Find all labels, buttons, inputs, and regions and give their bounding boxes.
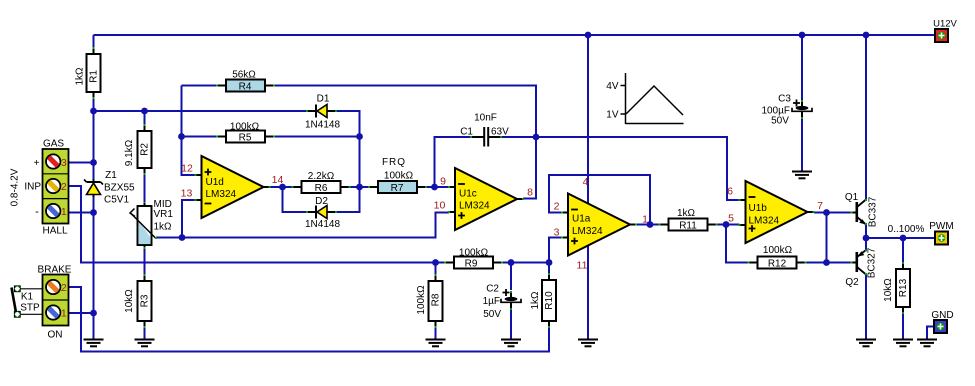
wire <box>902 307 904 340</box>
svg-text:R3: R3 <box>140 294 151 307</box>
zener diode Z1 <box>84 179 103 197</box>
svg-text:BZX55: BZX55 <box>104 183 135 194</box>
svg-text:Q2: Q2 <box>845 277 859 288</box>
svg-text:10nF: 10nF <box>474 113 497 124</box>
wire U1a pin 3 <box>549 238 562 263</box>
svg-text:100kΩ: 100kΩ <box>763 245 793 256</box>
wire D1 row <box>94 110 308 112</box>
wire R4 row <box>182 85 218 87</box>
svg-text:1N4148: 1N4148 <box>305 120 340 131</box>
svg-text:LM324: LM324 <box>206 189 237 200</box>
svg-text:1: 1 <box>61 206 67 218</box>
wire Q2 collector to ground <box>865 274 867 340</box>
wire <box>93 195 95 340</box>
svg-text:50V: 50V <box>771 116 789 127</box>
svg-text:-: - <box>35 206 39 218</box>
resistor R2 <box>138 124 152 175</box>
svg-text:1kΩ: 1kΩ <box>75 67 86 86</box>
wire U1d output <box>270 186 293 188</box>
resistor R9 <box>444 257 503 269</box>
junction <box>723 221 730 228</box>
transistor Q1 <box>851 199 868 225</box>
wire Q1 emitter / PWM node <box>865 224 867 251</box>
ground <box>856 340 876 347</box>
resistor R8 <box>429 274 443 328</box>
svg-text:8: 8 <box>527 187 533 199</box>
svg-text:4V: 4V <box>606 81 619 92</box>
svg-text:R11: R11 <box>679 221 697 232</box>
svg-text:50V: 50V <box>483 309 501 320</box>
svg-text:1V: 1V <box>606 110 619 121</box>
capacitor C3 plus mark <box>793 100 800 107</box>
svg-text:1kΩ: 1kΩ <box>154 222 173 233</box>
wire <box>435 321 437 340</box>
svg-text:1kΩ: 1kΩ <box>530 291 541 310</box>
op-amp U1a <box>561 194 637 256</box>
svg-text:C3: C3 <box>778 94 791 105</box>
wire BRAKE terminal 1 <box>69 312 94 314</box>
resistor R10 <box>542 273 556 328</box>
wire U1c output / C1 to pin 6 <box>523 137 740 200</box>
wire <box>93 92 95 179</box>
wire R13 drop <box>902 238 904 263</box>
wire R1 column to zener/ground <box>93 35 95 54</box>
connector GAS/HALL terminal block <box>43 149 69 224</box>
junction <box>533 134 540 141</box>
svg-text:R5: R5 <box>239 133 252 144</box>
wire +12V top rail <box>94 34 936 36</box>
wire <box>501 136 536 138</box>
svg-text:STP: STP <box>20 303 40 314</box>
junction <box>178 133 185 140</box>
svg-text:14: 14 <box>272 174 284 186</box>
svg-text:9: 9 <box>440 176 446 188</box>
resistor R12 <box>748 257 807 269</box>
wire <box>801 113 803 172</box>
junction <box>90 209 97 216</box>
svg-text:R9: R9 <box>465 259 478 270</box>
svg-text:FRQ: FRQ <box>382 157 406 168</box>
junction <box>90 108 97 115</box>
svg-text:9.1kΩ: 9.1kΩ <box>124 139 135 166</box>
wire C2 drop <box>510 263 512 291</box>
switch K1 <box>12 286 43 317</box>
wire <box>283 187 308 212</box>
svg-text:R10: R10 <box>544 291 555 310</box>
svg-text:BC327: BC327 <box>867 247 878 278</box>
svg-text:3: 3 <box>61 157 67 169</box>
svg-text:K1: K1 <box>21 292 34 303</box>
wire U1a pin 11 to ground <box>587 246 589 340</box>
svg-text:GAS: GAS <box>43 139 64 150</box>
svg-text:VR1: VR1 <box>154 209 174 220</box>
junction <box>823 259 830 266</box>
svg-text:63V: 63V <box>491 127 509 138</box>
svg-text:BC337: BC337 <box>868 196 879 227</box>
svg-text:U1c: U1c <box>459 189 477 200</box>
svg-text:R8: R8 <box>431 293 442 306</box>
wire GND port <box>927 327 934 340</box>
resistor R1 <box>87 47 101 99</box>
port PWM <box>935 232 948 245</box>
wire pin 7 node down to R12 node <box>826 213 828 263</box>
svg-text:GND: GND <box>931 310 953 321</box>
svg-text:13: 13 <box>181 188 193 200</box>
resistor R3 <box>138 274 152 328</box>
wire <box>144 245 146 281</box>
wire <box>144 321 146 340</box>
wire <box>336 111 360 212</box>
diode D1 <box>306 105 337 118</box>
resistor R11 <box>659 219 718 231</box>
svg-text:1N4148: 1N4148 <box>305 219 340 230</box>
svg-text:5: 5 <box>728 213 734 225</box>
svg-text:Q1: Q1 <box>845 192 859 203</box>
ground <box>135 340 155 347</box>
svg-text:R2: R2 <box>140 143 151 156</box>
svg-text:12: 12 <box>181 163 193 175</box>
wire pin 13 to VR1 wiper <box>182 200 196 238</box>
wire R5 row <box>182 136 218 138</box>
wire GAS terminal 3 <box>69 162 94 164</box>
ground <box>426 340 446 347</box>
svg-text:10kΩ: 10kΩ <box>124 289 135 313</box>
junction <box>356 184 363 191</box>
wire <box>273 136 360 138</box>
wire U1a feedback loop <box>549 175 650 225</box>
svg-text:7: 7 <box>817 200 823 212</box>
ground <box>917 340 937 347</box>
svg-text:LM324: LM324 <box>572 226 603 237</box>
junction <box>900 235 907 242</box>
op-amp U1d <box>195 156 271 218</box>
wire R12 right to Q2 base <box>806 262 852 264</box>
junction <box>431 184 438 191</box>
wire R2 column <box>144 111 146 131</box>
wire pin 5 junction to R12 <box>726 225 749 263</box>
svg-text:HALL: HALL <box>42 226 67 237</box>
transistor Q2 <box>851 250 868 276</box>
port GND <box>934 320 947 333</box>
ground <box>84 340 104 347</box>
svg-text:Z1: Z1 <box>105 170 117 181</box>
svg-text:LM324: LM324 <box>749 216 780 227</box>
svg-text:C5V1: C5V1 <box>104 195 129 206</box>
port U12V <box>935 29 948 42</box>
svg-text:R7: R7 <box>391 183 404 194</box>
wire C3 column <box>801 35 803 101</box>
junction <box>179 234 186 241</box>
svg-text:10: 10 <box>434 200 446 212</box>
wire <box>273 86 536 138</box>
wire U1b output <box>814 212 851 214</box>
junction <box>585 32 592 39</box>
waveform annotation triangle wave <box>626 86 683 115</box>
junction <box>141 108 148 115</box>
resistor R7 <box>368 181 427 193</box>
svg-text:0.8-4.2V: 0.8-4.2V <box>10 168 21 206</box>
svg-text:4: 4 <box>583 176 589 188</box>
ground <box>501 340 521 347</box>
junction <box>90 310 97 317</box>
svg-text:1: 1 <box>642 214 648 226</box>
op-amp U1b +/- marks <box>749 197 756 232</box>
svg-text:R12: R12 <box>768 259 787 270</box>
wire R8 drop <box>435 263 437 276</box>
svg-text:C2: C2 <box>486 284 499 295</box>
op-amp U1b <box>739 181 815 243</box>
op-amp U1c <box>448 168 524 230</box>
wire PWM row <box>866 237 935 239</box>
svg-text:U1b: U1b <box>749 203 768 214</box>
svg-text:100kΩ: 100kΩ <box>416 285 427 315</box>
svg-text:ON: ON <box>48 330 63 341</box>
waveform annotation axes <box>621 73 684 124</box>
svg-text:2: 2 <box>61 282 67 294</box>
svg-text:10kΩ: 10kΩ <box>883 278 894 302</box>
wire INP to R9 row <box>69 186 446 263</box>
svg-text:R6: R6 <box>315 183 328 194</box>
wire R7 to pin 9 <box>426 186 450 188</box>
svg-text:C1: C1 <box>460 127 473 138</box>
junction <box>508 259 515 266</box>
svg-text:11: 11 <box>577 260 588 272</box>
junction <box>799 32 806 39</box>
wire U1a pin 4 power <box>587 35 589 204</box>
op-amp U1a +/- marks <box>571 210 578 245</box>
svg-text:BRAKE: BRAKE <box>38 265 72 276</box>
capacitor C1 <box>470 127 502 147</box>
wire Q1 collector to rail <box>865 35 867 200</box>
resistor R13 <box>896 262 910 314</box>
potentiometer VR1 <box>130 202 157 249</box>
wire C1 branch <box>435 137 472 187</box>
svg-text:R4: R4 <box>239 82 252 93</box>
junction <box>863 235 870 242</box>
capacitor C3 <box>792 100 812 119</box>
connector BRAKE terminal block <box>43 275 69 326</box>
svg-text:U12V: U12V <box>933 19 957 30</box>
wire R4/R5 node to pin 12 <box>182 86 196 176</box>
wire <box>510 305 512 340</box>
wire <box>717 224 740 226</box>
resistor R4 <box>216 80 275 92</box>
wire <box>144 168 146 206</box>
svg-text:6: 6 <box>727 186 733 198</box>
junction <box>279 184 286 191</box>
op-amp U1c +/- marks <box>458 184 465 219</box>
ground <box>578 340 598 347</box>
svg-text:R13: R13 <box>898 278 909 297</box>
resistor R5 <box>216 131 275 143</box>
resistor R6 <box>292 181 351 193</box>
wire <box>349 186 369 188</box>
svg-text:2: 2 <box>61 181 67 193</box>
wire R11 row <box>650 224 660 226</box>
wire GAS terminal 1 <box>69 212 94 214</box>
svg-text:U1a: U1a <box>572 214 591 225</box>
svg-text:3: 3 <box>554 227 560 239</box>
svg-text:PWM: PWM <box>929 221 953 232</box>
wire BRAKE terminal 2 to bottom rail <box>69 287 550 352</box>
svg-text:+: + <box>34 158 40 169</box>
svg-text:1: 1 <box>61 308 67 320</box>
svg-text:1µF: 1µF <box>483 296 500 307</box>
ground <box>792 172 812 179</box>
svg-text:2: 2 <box>554 201 560 213</box>
junction <box>863 32 870 39</box>
junction <box>647 221 654 228</box>
wire <box>502 262 549 264</box>
junction <box>90 159 97 166</box>
ground <box>893 340 913 347</box>
junction <box>823 209 830 216</box>
wire wiper row to pin 10 <box>156 213 449 238</box>
capacitor C2 <box>501 291 521 310</box>
svg-text:1kΩ: 1kΩ <box>677 208 696 219</box>
op-amp U1d +/- marks <box>205 169 212 204</box>
svg-text:INP: INP <box>24 182 41 193</box>
junction <box>546 259 553 266</box>
svg-text:LM324: LM324 <box>459 201 490 212</box>
svg-text:100kΩ: 100kΩ <box>384 171 414 182</box>
svg-text:0..100%: 0..100% <box>888 224 925 235</box>
junction <box>432 259 439 266</box>
svg-text:D1: D1 <box>317 94 330 105</box>
svg-text:U1d: U1d <box>206 177 224 188</box>
capacitor C2 plus mark <box>503 289 510 296</box>
svg-text:R1: R1 <box>89 70 100 83</box>
wire R10 top <box>548 263 550 275</box>
junction <box>356 133 363 140</box>
diode D2 <box>306 206 337 219</box>
